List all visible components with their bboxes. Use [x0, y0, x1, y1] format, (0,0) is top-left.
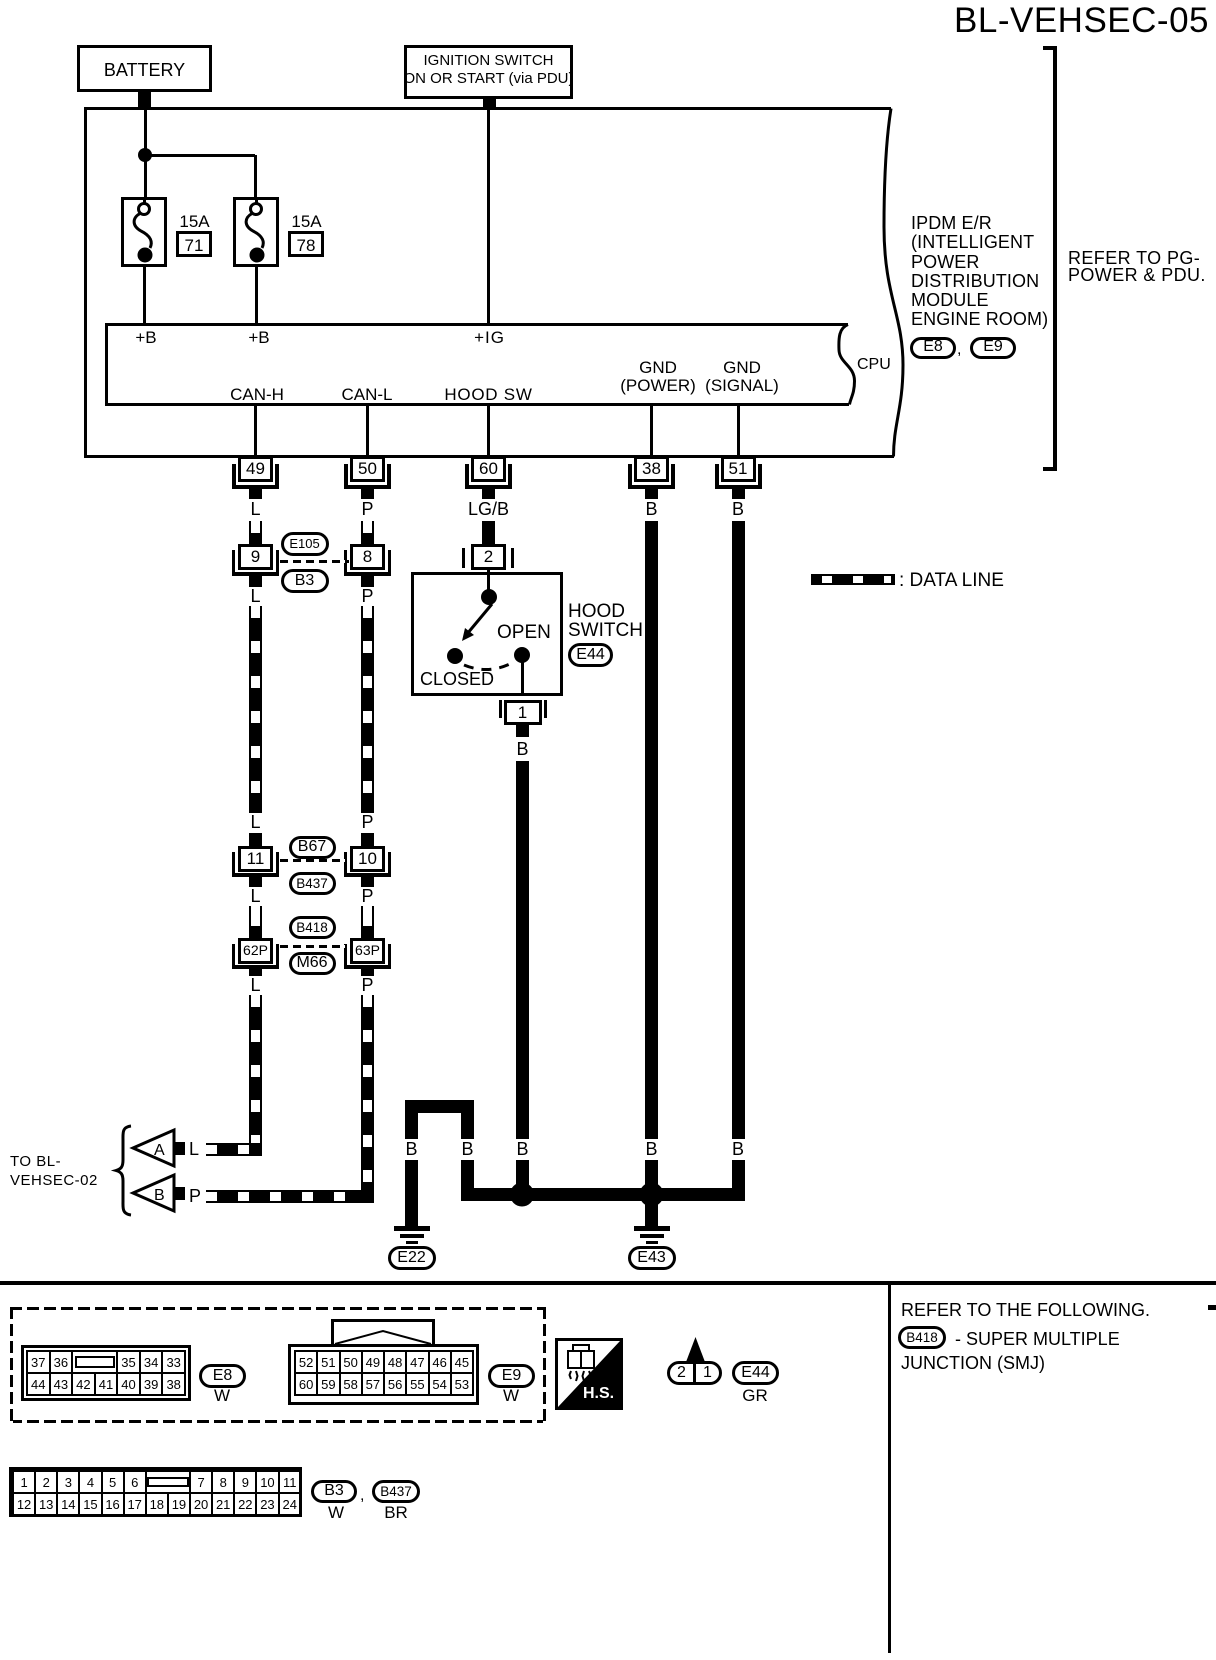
svg-text:A: A: [154, 1142, 165, 1159]
svg-text:H.S.: H.S.: [583, 1385, 614, 1402]
svg-text:B: B: [154, 1187, 165, 1204]
